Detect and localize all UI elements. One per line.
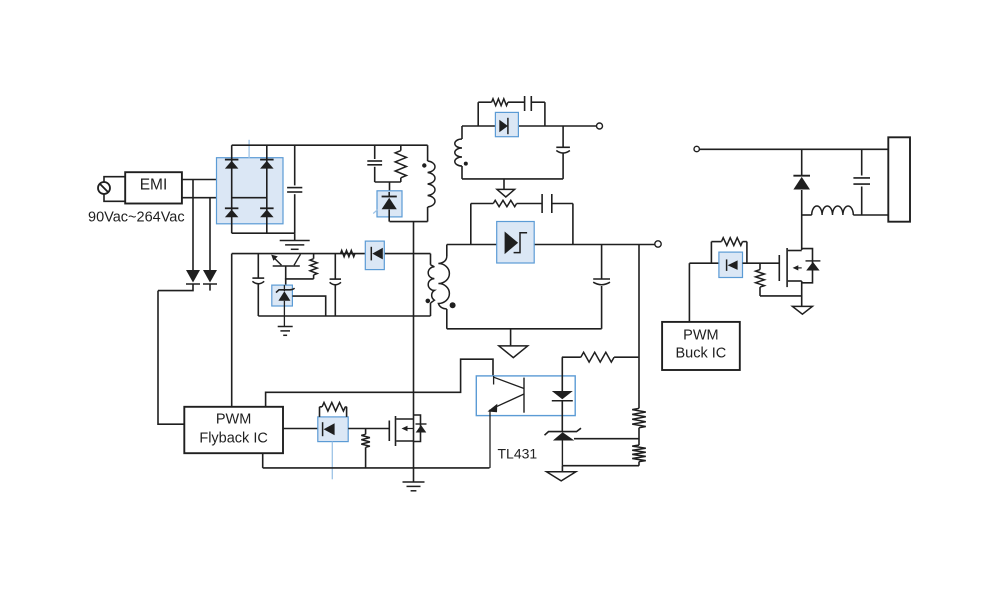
T2 secondary dot: [450, 302, 456, 308]
T1 secondary dot: [464, 162, 468, 166]
buck input terminal: [694, 146, 699, 151]
wire AC to EMI top: [104, 177, 125, 182]
buck diode D8: [793, 149, 810, 215]
bridge right leg wire: [266, 145, 268, 233]
bridge mid wire: [232, 197, 267, 199]
buck inductor L1: [802, 206, 889, 215]
ground arrow buck: [792, 306, 812, 314]
opto LED: [552, 357, 573, 431]
output1 ground arrow: [497, 179, 515, 197]
svg-text:Flyback IC: Flyback IC: [199, 431, 268, 447]
wire startup join: [158, 284, 210, 291]
HV top rail: [232, 144, 428, 146]
svg-text:Buck IC: Buck IC: [676, 346, 727, 362]
buck gate resistor R9: [711, 238, 747, 264]
bias diode D6: [371, 247, 383, 261]
bridge diode top-right: [260, 160, 274, 169]
output2 ground arrow: [499, 329, 528, 358]
ground primary bulk: [280, 233, 310, 249]
T2 secondary winding: [438, 245, 449, 329]
svg-text:TL431: TL431: [498, 446, 538, 462]
feedback resistor R6: [562, 352, 639, 362]
MOSFET Q2: [389, 415, 426, 446]
buck gate diode box: [719, 252, 743, 277]
TL431 ref wire: [574, 438, 639, 440]
output2 capacitor C4: [593, 245, 610, 329]
wire startup drop left: [192, 180, 194, 272]
startup diode D2: [203, 270, 217, 284]
PWM buck IC feed: [688, 263, 690, 322]
source resistor R5: [361, 429, 370, 468]
TVS diode D3: [382, 192, 397, 222]
T1 primary dot: [422, 163, 426, 167]
bias zener tap wire: [292, 296, 325, 316]
T1 secondary winding (top output): [455, 126, 462, 179]
svg-text:EMI: EMI: [140, 177, 168, 194]
output2 snubber: [471, 194, 573, 245]
label TL431: [498, 446, 538, 462]
output1 return rail: [462, 178, 563, 180]
gate wire: [283, 428, 318, 430]
buck top rail: [699, 148, 888, 150]
output1 rectifier diode D4: [499, 118, 508, 134]
buck gate wire: [689, 262, 719, 264]
bridge diode bottom-right: [260, 208, 274, 217]
TL431 shunt regulator U3: [545, 428, 582, 466]
buck capacitor C7: [853, 149, 870, 215]
bulk capacitor C1: [287, 145, 302, 233]
TVS diode box D3: [377, 191, 402, 217]
bridge bottom wire: [232, 232, 295, 234]
ground power: [403, 482, 425, 491]
T2 bias winding: [428, 254, 434, 316]
load block: [888, 137, 910, 221]
snubber resistor R1: [395, 145, 406, 182]
optocoupler U2 box: [476, 376, 575, 416]
bridge rectifier BR1 box: [217, 158, 284, 224]
gate parallel resistor R4: [320, 403, 347, 417]
bias pass transistor Q1: [271, 254, 300, 285]
output1 positive rail: [462, 125, 596, 127]
opto phototransistor: [488, 376, 525, 468]
bias base resistor R2: [285, 254, 317, 279]
buck gate wire 2: [743, 262, 780, 264]
gate diode box: [318, 417, 348, 442]
output1 snubber: [478, 96, 545, 126]
buck switch drain wire: [801, 215, 803, 250]
output1 rectifier box: [495, 112, 518, 136]
bridge diode bottom-left: [225, 208, 239, 217]
svg-text:PWM: PWM: [216, 412, 251, 428]
startup diode D1: [186, 270, 200, 284]
bias zener box: [272, 285, 293, 306]
wire EMI to bridge top: [182, 179, 232, 181]
leader line above bridge: [248, 140, 250, 159]
buck source resistor R10: [756, 263, 802, 296]
bias rail bottom: [258, 315, 430, 317]
label 90Vac~264Vac: [88, 210, 185, 226]
drain line: [413, 222, 415, 482]
primary bottom wire: [390, 221, 428, 223]
buck gate diode D9: [727, 259, 738, 271]
PWM buck IC box: [662, 322, 740, 370]
output1 capacitor C3: [556, 126, 570, 179]
bias diode box D6: [365, 241, 384, 270]
leader TVS: [373, 210, 378, 214]
source return rail: [263, 453, 490, 468]
T2 bias dot: [426, 299, 431, 304]
wire startup drop right: [209, 198, 211, 271]
svg-text:90Vac~264Vac: 90Vac~264Vac: [88, 210, 185, 226]
snubber bottom wire: [375, 182, 401, 191]
TL431 bottom wire: [562, 465, 639, 467]
output2 rectifier box: [497, 222, 535, 264]
gate wire 2: [348, 428, 389, 430]
snubber capacitor C2: [367, 145, 382, 182]
leader gate diode: [331, 442, 333, 480]
svg-text:PWM: PWM: [683, 328, 718, 344]
bias series resistor R3: [341, 250, 355, 256]
bias cap C5: [252, 254, 264, 316]
wire AC to EMI bottom: [104, 194, 125, 201]
EMI filter block: [125, 172, 182, 203]
wire startup feed to PWM IC: [158, 291, 184, 425]
feedback wire to opto collector: [266, 359, 493, 407]
ground arrow TL431: [547, 466, 576, 481]
bias rail: [232, 253, 431, 255]
T1 primary winding: [428, 145, 435, 221]
output1 terminal: [597, 123, 603, 129]
output2 terminal: [655, 241, 661, 247]
divider resistor R8: [632, 445, 646, 466]
output2 rectifier device: [505, 232, 527, 255]
buck source wire: [801, 281, 803, 306]
ground bias: [278, 327, 293, 336]
bridge diode top-left: [225, 160, 239, 169]
wire EMI to bridge mid: [182, 197, 267, 199]
PWM flyback IC box: [184, 407, 283, 453]
bias zener D5: [276, 285, 295, 326]
divider sense line: [638, 245, 640, 409]
output2 return rail: [447, 328, 602, 330]
bias cap C6: [330, 254, 341, 316]
buck MOSFET Q3: [779, 248, 820, 287]
bridge left leg wire: [231, 145, 233, 233]
AC source V1: [98, 182, 110, 194]
gate diode D7: [323, 422, 335, 436]
output2 positive rail: [447, 244, 655, 246]
bias vcc drop to PWM IC: [231, 254, 233, 407]
divider resistor R7: [632, 408, 646, 445]
